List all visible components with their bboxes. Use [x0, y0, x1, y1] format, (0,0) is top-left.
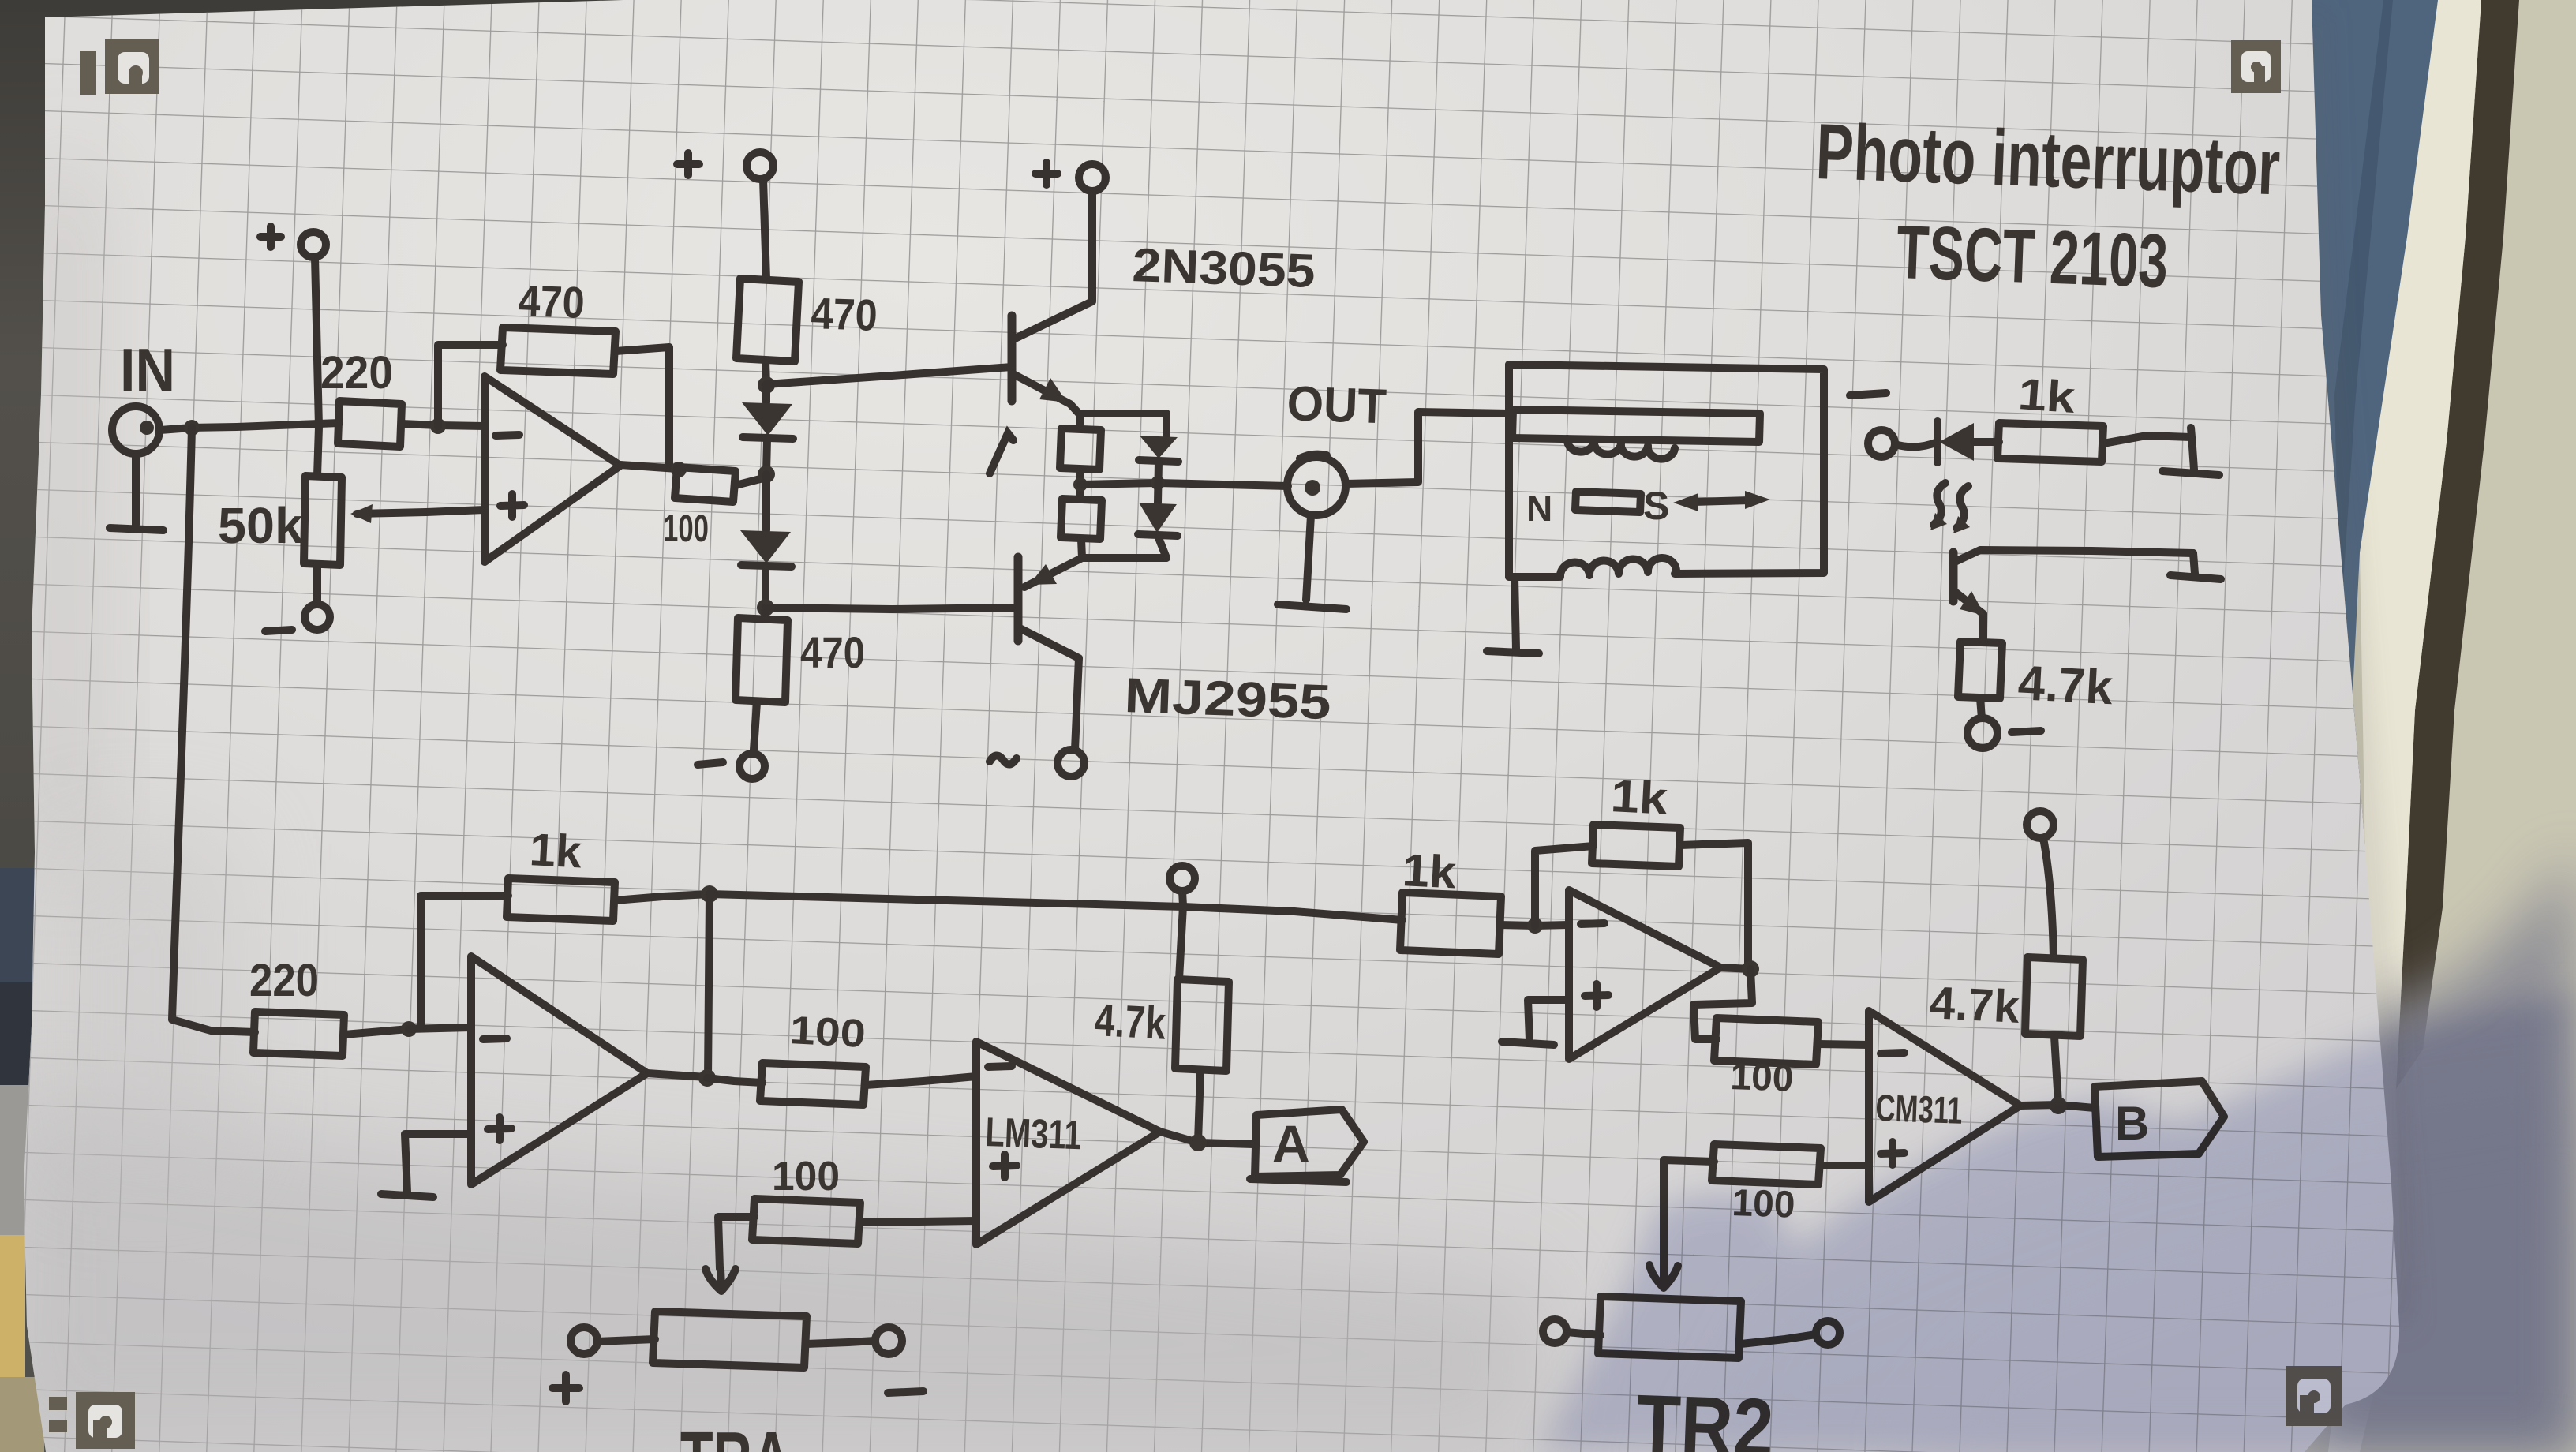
paper edge cast shadow line: [2314, 8, 2402, 1326]
wire U2 output: [647, 1073, 707, 1077]
flag A: [1255, 1110, 1364, 1177]
TR2 left terminal: [1543, 1319, 1567, 1343]
resistor 1k LED: [1998, 423, 2103, 462]
svg-text:MJ2955: MJ2955: [1124, 668, 1332, 730]
gray object left edge: [0, 1085, 28, 1235]
fiducial marker bottom-right: [2286, 1366, 2342, 1426]
svg-text:470: 470: [800, 627, 865, 677]
wire 100 to diode chain: [736, 477, 766, 485]
ground U2 + input: [381, 1134, 471, 1197]
resistor 100 (A minus): [760, 1063, 866, 1105]
comparator U5 CM311: [1869, 1011, 2020, 1202]
gray shadow on door bottom right: [2293, 852, 2576, 1452]
wire 1k to output node: [615, 894, 710, 900]
svg-text:100: 100: [663, 508, 709, 550]
Q1 collector: [1012, 192, 1092, 340]
wire emitter top rail: [1079, 410, 1166, 417]
magnet bar: [1575, 492, 1641, 512]
op-amp U4: [1569, 890, 1720, 1059]
transistor Q2 MJ2955 base bar: [1014, 557, 1023, 641]
diode DE1 (parallel): [1163, 414, 1170, 436]
resistor 100 (B plus): [1712, 1144, 1821, 1184]
wire IN to R 220: [160, 423, 339, 430]
wire U1 output: [620, 465, 677, 469]
power terminal + (driver bias): [677, 153, 699, 175]
motor coil upper: [1567, 439, 1675, 459]
wire LM311 output: [1160, 1132, 1253, 1144]
power terminal + (pot supply): [260, 226, 281, 247]
diode D1 bias: [762, 384, 770, 402]
resistor 100 (U1 out): [675, 467, 736, 502]
resistor 1k feedback U2: [507, 878, 615, 921]
Q1 emitter with arrow: [1012, 373, 1079, 414]
LED (emitter diode): [1934, 421, 1941, 462]
motor armature bar: [1512, 410, 1760, 442]
svg-text:OUT: OUT: [1286, 376, 1387, 434]
light arrows: [1934, 483, 1945, 525]
phototransistor collector wire: [1955, 550, 2193, 562]
ground at OUT: [1278, 515, 1346, 609]
svg-text:220: 220: [320, 347, 393, 399]
pot 50k bottom to - terminal: [313, 565, 321, 604]
tilde Q2 terminal: [990, 755, 1017, 764]
OUT terminal: [1287, 457, 1346, 515]
wire CM311 output: [2020, 1105, 2095, 1108]
resistor 470 lower bias: [765, 608, 766, 618]
svg-text:100: 100: [788, 1008, 867, 1056]
long wire to comparator channel B: [710, 894, 1402, 920]
svg-text:220: 220: [249, 955, 319, 1006]
wire output node down: [708, 894, 710, 1079]
ground phototransistor collector: [2170, 553, 2221, 579]
svg-text:TSCT 2103: TSCT 2103: [1895, 210, 2170, 304]
blue fold line: [2334, 0, 2393, 631]
diode DE2 (parallel): [1139, 503, 1177, 533]
svg-text:4.7k: 4.7k: [1928, 977, 2021, 1033]
svg-text:100: 100: [1730, 1056, 1795, 1100]
resistor 100 (A plus): [752, 1199, 860, 1244]
svg-text:4.7k: 4.7k: [2016, 656, 2114, 715]
wire output jog to 100: [1694, 969, 1752, 1039]
TR2 right terminal: [1816, 1321, 1840, 1345]
wire 470 lower to - terminal: [754, 702, 757, 750]
Q2 emitter wire with arrow: [1024, 558, 1082, 587]
motor coil lower: [1560, 558, 1676, 577]
resistor 1k series B: [1400, 893, 1501, 954]
input terminal IN: [112, 406, 159, 454]
wire to 100 comparator A plus: [860, 1221, 976, 1222]
cream door edge strip: [2328, 0, 2481, 1452]
wire base node to Q2 base: [766, 608, 1018, 609]
Q2 collector: [1018, 627, 1079, 750]
node: U1 output: [671, 462, 687, 477]
flag B: [2095, 1081, 2224, 1157]
svg-text:TRA: TRA: [680, 1416, 791, 1452]
diode D2 bias: [762, 474, 770, 530]
wire U2 feedback up: [409, 896, 508, 1029]
phototransistor emitter with arrow: [1955, 592, 1983, 642]
wire terminal to 4.7k: [2043, 838, 2054, 957]
soft lower paper shading: [0, 1089, 1539, 1452]
node: U2 output: [698, 1069, 716, 1087]
wire 220 to opamp U1 inverting input: [402, 424, 485, 426]
fiducial marker top-left: [80, 39, 159, 95]
wire OUT to motor: [1346, 412, 1509, 484]
TRA - terminal: [875, 1327, 902, 1354]
photointerruptor LED terminal -: [1850, 393, 1886, 395]
node: LM311 output: [1189, 1134, 1207, 1151]
svg-text:A: A: [1272, 1114, 1310, 1173]
svg-text:N: N: [1526, 488, 1552, 529]
resistor 4.7k emitter: [1958, 642, 2002, 698]
minus sign phototransistor: [2012, 731, 2041, 732]
resistor 4.7k pull-up A: [1175, 979, 1229, 1071]
resistor 4.7k pull-up B: [2025, 957, 2083, 1036]
terminal - (Q2 collector): [1058, 750, 1084, 777]
phototransistor bar: [1949, 552, 1958, 601]
minus sign pot: [265, 630, 292, 631]
node: Q2 base node: [757, 599, 774, 616]
dark navy object left edge: [0, 982, 35, 1085]
potentiometer TRA: [653, 1312, 807, 1368]
node: U2 output top: [701, 885, 718, 903]
blue wall strip: [2310, 0, 2438, 789]
svg-text:LM311: LM311: [985, 1110, 1083, 1158]
wire 100 to CM311 minus: [1818, 1044, 1869, 1045]
wire RE1 to RE2: [1080, 470, 1080, 499]
dark brown strip: [2396, 0, 2519, 1089]
wiper arrow TRA: [706, 1269, 736, 1291]
node: emitter mid rail left: [1073, 477, 1088, 492]
wire 220 to U2 inverting: [344, 1027, 471, 1035]
motor housing box: [1509, 365, 1824, 577]
node: Q1 base node: [758, 376, 775, 394]
fiducial marker bottom-left: [49, 1392, 135, 1449]
wire 4.7k to output node A: [1198, 1071, 1200, 1142]
wire 470 to base node: [766, 361, 766, 384]
svg-text:Photo interruptor: Photo interruptor: [1814, 107, 2282, 211]
svg-text:CM311: CM311: [1875, 1087, 1964, 1132]
fiducial marker top-right: [2231, 40, 2281, 93]
INK: [110, 152, 2224, 1401]
potentiometer 50k: [304, 476, 342, 565]
wire 4.7k to output node B: [2054, 1036, 2058, 1103]
resistor 470 feedback U1: [500, 327, 616, 374]
wire feedback to output: [616, 347, 669, 464]
power terminal + (Q1 collector): [1079, 164, 1106, 191]
svg-text:1k: 1k: [528, 824, 583, 878]
resistor 220 lower channel: [253, 1012, 344, 1056]
node: diode mid node: [758, 466, 775, 483]
wire terminal to LED: [1895, 442, 1938, 447]
wire to 100 comparator A: [707, 1078, 762, 1083]
magnet travel arrows: [1694, 500, 1750, 502]
ground LED side: [2162, 428, 2219, 475]
svg-text:470: 470: [518, 275, 586, 327]
potentiometer TR2: [1598, 1297, 1741, 1358]
svg-text:2N3055: 2N3055: [1132, 238, 1316, 298]
blue-gray object left edge: [0, 868, 36, 986]
wire 1k to ground: [2103, 436, 2191, 443]
wire 100 left to pot TRA wiper: [718, 1217, 754, 1269]
right side: beige door: [2289, 0, 2576, 1452]
resistor 100 (B minus): [1714, 1018, 1818, 1065]
svg-text:1k: 1k: [1609, 770, 1669, 825]
yellow object bottom-left: [0, 1235, 25, 1377]
wire feedback up: [438, 345, 503, 426]
minus sign lower bias: [698, 762, 723, 765]
wire 1k to U4 inverting: [1501, 925, 1569, 926]
wire to 100 B plus: [1821, 1162, 1869, 1169]
wire U4 output: [1720, 967, 1750, 969]
svg-text:100: 100: [772, 1154, 840, 1199]
resistor 470 upper bias: [736, 279, 799, 361]
shadows overlay: [1541, 993, 2576, 1452]
power terminal (4.7k pull-up B): [2027, 811, 2054, 838]
TRA + terminal: [571, 1327, 597, 1354]
resistor 220 (input): [338, 401, 402, 447]
node: U4 output: [1742, 960, 1759, 978]
emitter resistor RE2: [1061, 499, 1102, 539]
wire mid rail to OUT: [1080, 483, 1288, 486]
comparator U3 LM311: [976, 1042, 1160, 1244]
op-amp U2: [471, 956, 647, 1184]
ground U4 + input: [1502, 1000, 1569, 1045]
label 1 (Q1): [990, 433, 1013, 473]
pot wiper arrow from U1 + input: [357, 510, 485, 514]
wire 100 left to pot TR2 wiper: [1664, 1160, 1714, 1259]
op-amp U1: [485, 376, 620, 562]
tan floor bottom-left: [0, 1377, 44, 1452]
node: U4 feedback tap: [1527, 918, 1543, 934]
svg-text:4.7k: 4.7k: [1093, 994, 1167, 1050]
wire + to resistor 470 upper: [763, 179, 766, 279]
ground at IN: [110, 455, 163, 530]
wiper arrow TR2: [1649, 1259, 1678, 1288]
wire feedback to output: [1680, 843, 1748, 967]
svg-text:1k: 1k: [1401, 844, 1458, 899]
wire base node to Q1 base: [766, 367, 1012, 384]
node: CM311 output: [2050, 1097, 2067, 1114]
wire 100 to LM311 minus: [866, 1076, 976, 1085]
svg-text:S: S: [1643, 484, 1669, 528]
emitter resistor RE1: [1060, 414, 1101, 470]
transistor Q1 2N3055 base bar: [1008, 316, 1017, 401]
power terminal (4.7k pull-up A): [1170, 866, 1195, 891]
node: IN junction: [184, 420, 200, 436]
wire U4 feedback up: [1535, 846, 1593, 926]
node: U2 feedback tap: [401, 1021, 417, 1037]
svg-text:1k: 1k: [2016, 369, 2077, 422]
wire IN node down to lower channel: [172, 428, 255, 1032]
wire terminal down to 4.7k: [1179, 891, 1183, 979]
wire + down to pot 50k: [315, 257, 319, 476]
node: emitter mid rail right: [1151, 476, 1165, 490]
wire 4.7k to - terminal: [1980, 698, 1982, 718]
svg-text:50k: 50k: [218, 497, 303, 554]
ground at motor: [1487, 577, 1539, 653]
resistor 1k feedback U4: [1592, 825, 1680, 866]
bottom rail: [1082, 554, 1166, 562]
svg-text:IN: IN: [120, 335, 175, 405]
svg-text:470: 470: [811, 288, 878, 340]
node: feedback tap U1: [430, 418, 446, 434]
